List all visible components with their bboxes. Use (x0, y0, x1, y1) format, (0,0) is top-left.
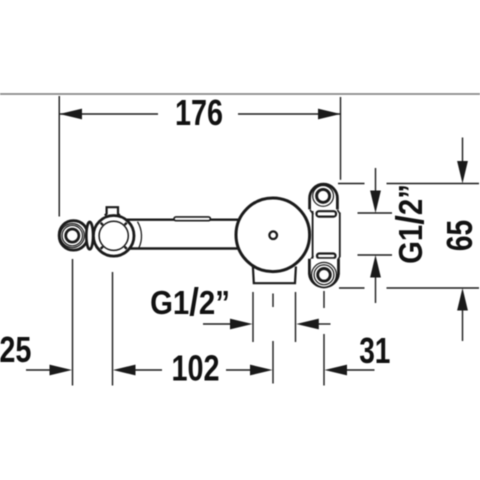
svg-text:65: 65 (440, 220, 480, 251)
svg-text:G1/2”: G1/2” (389, 184, 432, 264)
svg-text:102: 102 (171, 348, 219, 389)
svg-text:31: 31 (359, 331, 390, 371)
svg-text:G1/2”: G1/2” (150, 281, 230, 324)
svg-text:176: 176 (175, 92, 223, 133)
svg-text:25: 25 (0, 329, 31, 370)
